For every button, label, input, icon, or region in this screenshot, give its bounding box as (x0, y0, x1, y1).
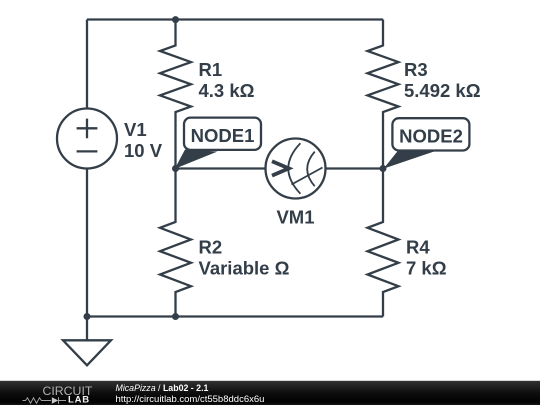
logo squiggle wire with diode (23, 397, 67, 403)
svg-text:10 V: 10 V (124, 140, 163, 161)
resistor R1 (160, 20, 191, 169)
junction dot top (R1/top wire) (172, 16, 179, 23)
svg-text:5.492 kΩ: 5.492 kΩ (404, 80, 481, 101)
wire node1 to VM1 (176, 167, 266, 169)
svg-text:http://circuitlab.com/ct55b8dd: http://circuitlab.com/ct55b8ddc6x6u (116, 394, 265, 405)
junction dot bottom (R2/bottom wire) (172, 313, 179, 320)
svg-text:R1: R1 (199, 59, 223, 80)
svg-text:LAB: LAB (68, 394, 90, 405)
> marker (272, 161, 289, 175)
logo diode (52, 397, 59, 403)
svg-text:R3: R3 (404, 59, 428, 80)
resistor R4 (368, 169, 399, 317)
wire left vertical lower (86, 169, 88, 341)
wire bottom horizontal (87, 315, 383, 317)
node NODE2 callout (384, 118, 470, 168)
meter arc 1 (288, 143, 300, 193)
svg-text:MicaPizza / Lab02 - 2.1: MicaPizza / Lab02 - 2.1 (116, 383, 209, 393)
svg-text:VM1: VM1 (276, 207, 314, 228)
svg-text:V1: V1 (124, 119, 147, 140)
wire VM1 to node2 (326, 167, 384, 169)
svg-text:R2: R2 (199, 237, 223, 258)
voltage source V1 (57, 109, 117, 169)
footer bar (0, 381, 540, 405)
voltmeter VM1 (266, 139, 326, 199)
junction dot node2 (380, 165, 387, 172)
resistor R2 (160, 169, 191, 317)
svg-text:Variable Ω: Variable Ω (199, 258, 290, 279)
node NODE1 callout (175, 118, 261, 169)
svg-text:7 kΩ: 7 kΩ (406, 258, 447, 279)
meter needle (292, 168, 323, 185)
resistor R3 (368, 20, 399, 169)
junction dot node1 (172, 165, 179, 172)
svg-text:NODE1: NODE1 (191, 125, 255, 146)
wire left vertical upper (86, 20, 88, 109)
junction dot bottom left (ground) (84, 313, 91, 320)
svg-text:4.3 kΩ: 4.3 kΩ (199, 80, 255, 101)
svg-text:NODE2: NODE2 (399, 125, 463, 146)
svg-text:R4: R4 (406, 237, 430, 258)
ground (63, 340, 111, 365)
meter arc 2 (307, 152, 315, 187)
wire top horizontal (87, 18, 383, 20)
